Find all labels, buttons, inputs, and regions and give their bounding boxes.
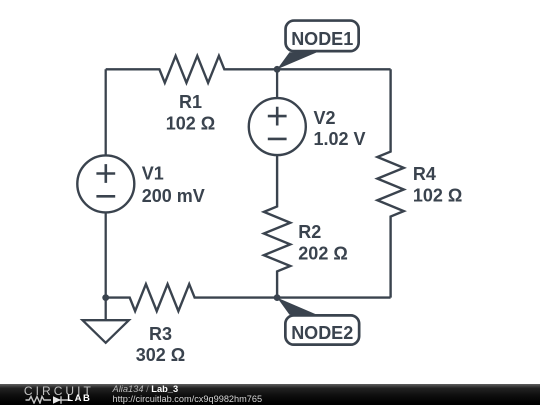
svg-text:NODE1: NODE1 [291, 29, 353, 49]
svg-text:102 Ω: 102 Ω [166, 113, 215, 133]
svg-text:200 mV: 200 mV [142, 186, 205, 206]
svg-text:NODE2: NODE2 [291, 323, 353, 343]
svg-text:V1: V1 [142, 163, 164, 183]
svg-text:202 Ω: 202 Ω [298, 243, 347, 263]
svg-text:R2: R2 [298, 222, 321, 242]
svg-text:R3: R3 [149, 324, 172, 344]
svg-text:1.02 V: 1.02 V [314, 129, 366, 149]
svg-text:R4: R4 [413, 164, 436, 184]
svg-text:102 Ω: 102 Ω [413, 185, 462, 205]
svg-text:R1: R1 [179, 92, 202, 112]
svg-text:302 Ω: 302 Ω [136, 345, 185, 365]
svg-text:V2: V2 [314, 108, 336, 128]
